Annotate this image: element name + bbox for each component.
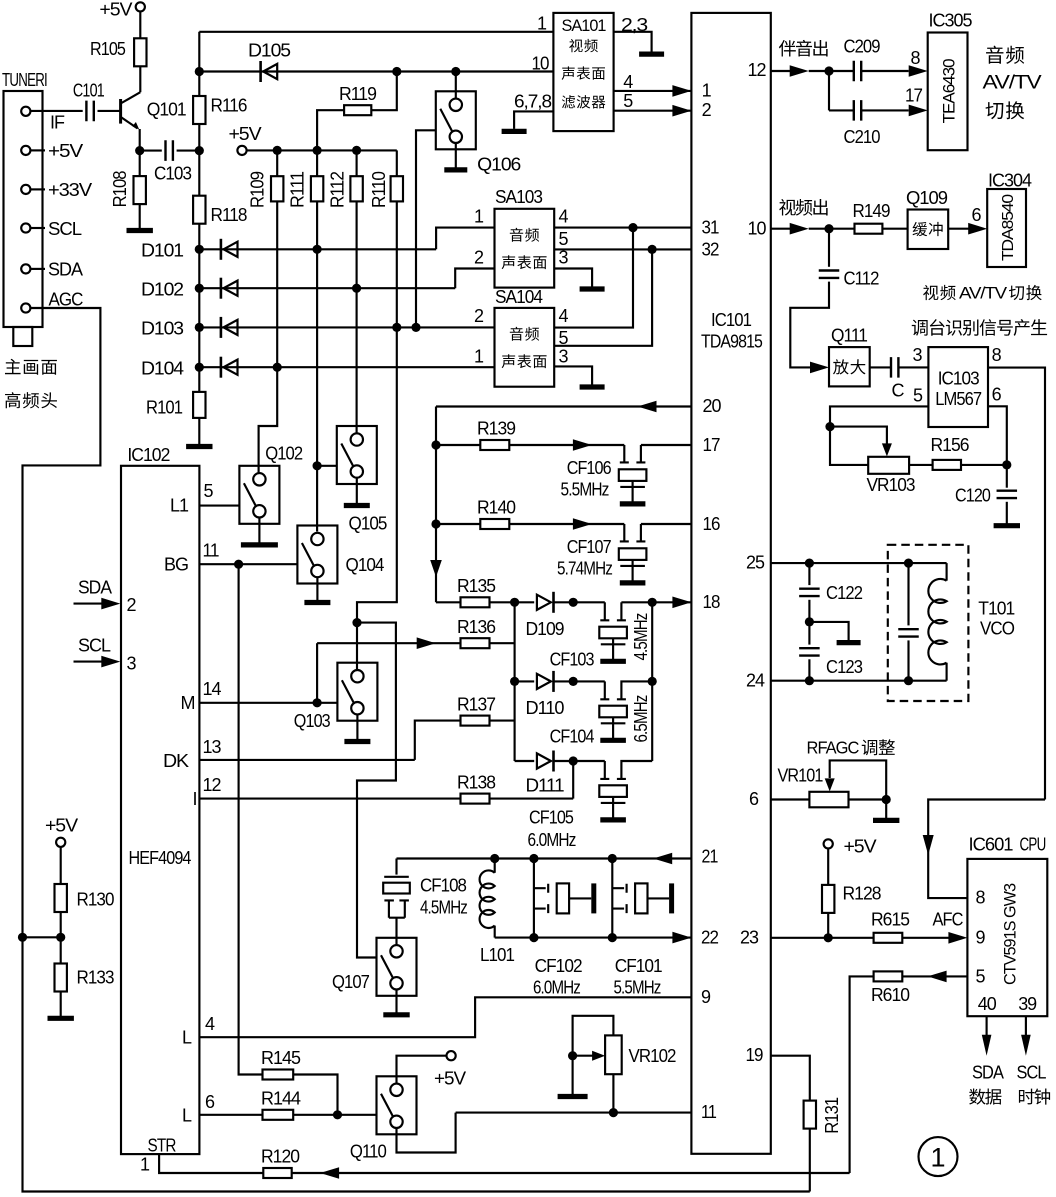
wire C209 to IC305: [861, 70, 909, 72]
svg-text:R136: R136: [457, 617, 496, 637]
wire VR102 top: [573, 1016, 614, 1056]
svg-text:4: 4: [205, 1014, 215, 1034]
node D109 input: [510, 598, 519, 607]
wire Q106 control: [416, 130, 436, 327]
node R112 top: [352, 146, 361, 155]
svg-text:R110: R110: [369, 171, 389, 208]
svg-text:AFC: AFC: [933, 909, 964, 929]
wire IC101 pin11: [456, 1112, 692, 1114]
svg-text:24: 24: [746, 671, 765, 691]
svg-text:2: 2: [474, 248, 484, 268]
svg-text:11: 11: [203, 541, 220, 561]
wire SA104 pin3 to ground: [554, 366, 592, 384]
wire R136 to column: [490, 642, 515, 644]
svg-text:1: 1: [140, 1155, 150, 1175]
capacitor C210: [854, 100, 861, 121]
transistor Q106: [436, 91, 476, 149]
svg-text:SA101: SA101: [562, 16, 607, 35]
wire to R139: [436, 444, 480, 446]
wire R119 right lead: [371, 72, 397, 111]
arrow into IC101 pin 18: [672, 597, 691, 609]
svg-text:SA103: SA103: [495, 187, 543, 207]
arrow pin10: [790, 223, 809, 235]
svg-text:9: 9: [976, 928, 986, 948]
svg-text:SDA: SDA: [78, 577, 112, 597]
svg-text:2: 2: [127, 595, 137, 615]
wire C123 to pin24: [808, 659, 810, 680]
wire SA101 pins 2,3: [614, 32, 652, 52]
node emitter junction: [135, 146, 144, 155]
ceramic filter CF106: [624, 445, 641, 462]
wire +5V rail: [247, 149, 397, 151]
wire divider tap: [23, 936, 61, 938]
SAW filter SA104: [495, 308, 555, 387]
node C123 bottom: [805, 676, 814, 685]
svg-text:1: 1: [537, 14, 547, 34]
wire R140 to CF107: [509, 523, 624, 525]
node AGC / R130 divider: [18, 933, 27, 942]
svg-text:5.5MHz: 5.5MHz: [614, 978, 662, 998]
svg-text:5.5MHz: 5.5MHz: [561, 480, 610, 500]
label 调台识别信号产生: [912, 319, 1047, 336]
wire Q111 to cap C: [870, 366, 891, 368]
resistor R138: [461, 794, 490, 804]
svg-text:R105: R105: [90, 39, 126, 59]
label 视频: [569, 39, 598, 52]
wire D101 row: [199, 248, 436, 250]
label 视频出: [779, 199, 827, 216]
capacitor C209: [854, 61, 861, 82]
node C112: [824, 224, 833, 233]
wire R615 to IC601 pin9: [902, 937, 949, 939]
wire DK riser to R137: [415, 721, 461, 760]
node R109 top: [273, 146, 282, 155]
svg-text:R120: R120: [261, 1146, 300, 1166]
diode D101: [220, 239, 223, 260]
wire SCL arrow (pin39): [1025, 1016, 1027, 1035]
wire R105 to Q101 collector: [139, 66, 141, 92]
svg-text:40: 40: [978, 994, 997, 1014]
label 音频 (SA104): [510, 327, 539, 341]
arrow SDA: [982, 1035, 992, 1056]
wire Q105 control: [317, 465, 337, 467]
node pin18 branch: [648, 598, 657, 607]
svg-text:6.0MHz: 6.0MHz: [533, 978, 581, 998]
ceramic filter CF102: [534, 888, 546, 908]
wire to R140: [436, 523, 480, 525]
svg-text:CF105: CF105: [529, 808, 574, 828]
svg-text:12: 12: [748, 60, 767, 80]
label 伴音出: [779, 40, 828, 57]
capacitor C: [891, 357, 898, 378]
wire R110 top lead: [396, 150, 398, 176]
resistor R136: [461, 638, 490, 648]
wire R130 to node: [60, 912, 62, 937]
node D103: [195, 323, 204, 332]
wire CF104 right lead: [621, 681, 652, 698]
svg-text:4: 4: [559, 306, 569, 326]
svg-text:Q104: Q104: [346, 555, 385, 575]
label 切换 (mid): [1009, 285, 1042, 300]
svg-text:R118: R118: [211, 205, 248, 225]
node R111/D101: [313, 245, 322, 254]
svg-text:IC101: IC101: [711, 310, 752, 330]
wire tuner SDA stub: [30, 268, 45, 270]
svg-text:Q102: Q102: [265, 443, 303, 463]
wire cap C to IC103: [899, 366, 929, 368]
arrow down to R135: [430, 560, 442, 577]
diode D103: [220, 317, 223, 338]
transistor Q104: [297, 526, 337, 584]
svg-text:R149: R149: [853, 201, 891, 221]
wire SA101 pin4 to IC101 pin1: [614, 90, 692, 92]
wire R112 top lead: [356, 150, 358, 176]
wire node to ground: [809, 622, 848, 640]
wire SA104 pin4: [554, 228, 633, 328]
transistor Q103: [337, 663, 377, 721]
ceramic filter CF101: [612, 888, 624, 908]
tuner pin p5: [21, 146, 30, 155]
resistor R111: [311, 176, 323, 201]
svg-text:R108: R108: [110, 170, 130, 207]
ground SA103 pin3: [580, 286, 605, 291]
wire SA101 pin5 to IC101 pin2: [614, 110, 692, 112]
label 声表面 (SA104): [502, 354, 547, 368]
capacitor C101: [86, 101, 93, 122]
svg-text:CF107: CF107: [567, 537, 612, 557]
node VR101 right: [882, 795, 891, 804]
node CF101 bottom: [608, 933, 617, 942]
potentiometer VR102: [605, 1035, 622, 1074]
node C209/C210: [824, 66, 833, 75]
power +5V (R128): [824, 839, 833, 848]
transistor Q105: [337, 426, 377, 484]
label 视频 AV/TV 切换: [923, 285, 956, 300]
wire STR pin1: [159, 1154, 263, 1173]
wire R111 column lower: [316, 249, 318, 531]
wire VR103 left: [830, 427, 868, 465]
ground VR102 wiper: [572, 1056, 574, 1097]
svg-text:SA104: SA104: [495, 287, 543, 307]
svg-text:C123: C123: [826, 657, 863, 677]
node T101 cap top: [904, 559, 913, 568]
wire VR102 bottom: [612, 1074, 614, 1112]
svg-text:4: 4: [559, 207, 569, 227]
node R112/D102: [352, 284, 361, 293]
wire tuner SCL stub: [30, 227, 45, 229]
label 放大: [833, 359, 865, 374]
node D102: [195, 284, 204, 293]
wire R610 to bottom row: [850, 976, 874, 1173]
wire SA101 pin1 row: [199, 31, 553, 33]
resistor R131: [804, 1101, 816, 1129]
wire R136 feed: [317, 642, 460, 644]
power +5V (Q110): [447, 1051, 456, 1060]
svg-text:6,7,8: 6,7,8: [514, 92, 552, 112]
wire D111 in: [515, 760, 535, 762]
wire CF101 left column: [611, 859, 613, 938]
wire VR103 to R156: [909, 464, 933, 466]
resistor R156: [933, 460, 961, 470]
svg-text:2: 2: [474, 306, 484, 326]
wire pin23 to R615: [771, 937, 874, 939]
svg-text:R130: R130: [77, 890, 115, 910]
wire R109 top lead: [276, 150, 278, 176]
wire to C209: [809, 70, 854, 72]
wire R139 to CF106: [509, 444, 624, 446]
wire CF107 to IC101 pin16: [641, 523, 692, 525]
ground Q102: [258, 517, 260, 545]
node L101 top: [490, 854, 499, 863]
node SA103 pin5 / SA104 pin5: [648, 245, 657, 254]
svg-text:6: 6: [992, 385, 1002, 405]
resistor R118: [193, 196, 205, 224]
wire VR101 to node: [849, 798, 887, 800]
wire R110 column: [396, 201, 398, 327]
wire IC101 pin25: [771, 562, 947, 564]
diode D105: [259, 61, 262, 82]
wire D102 row: [199, 287, 455, 289]
potentiometer VR103: [868, 457, 909, 474]
svg-text:6: 6: [972, 205, 982, 225]
node R128/pin23: [824, 933, 833, 942]
svg-text:CF102: CF102: [535, 956, 583, 976]
wire Q106 top lead: [455, 72, 457, 99]
svg-text:R139: R139: [477, 419, 516, 439]
wire D109 to CF103: [554, 601, 605, 603]
svg-text:C209: C209: [844, 37, 881, 57]
node R110/D103: [392, 323, 401, 332]
svg-text:R112: R112: [327, 171, 347, 208]
svg-text:R156: R156: [931, 435, 970, 455]
wire R112 column lower: [356, 288, 358, 433]
wire D110 in: [515, 680, 535, 682]
svg-text:12: 12: [203, 775, 222, 795]
inductor L101: [494, 859, 496, 873]
wire CF right column: [651, 602, 653, 761]
node R140 tap: [431, 519, 440, 528]
wire BG pin11 to Q104: [199, 563, 297, 565]
resistor R112: [350, 176, 362, 201]
node Q103 top: [352, 618, 361, 627]
IC IC101 TDA9815: [691, 13, 770, 1154]
svg-text:STR: STR: [148, 1136, 177, 1156]
wire D110 out: [554, 680, 605, 682]
svg-text:17: 17: [905, 86, 923, 106]
wire Q103 node to Q107 control: [357, 623, 396, 958]
arrow out of pin5: [928, 971, 947, 983]
svg-text:C120: C120: [955, 486, 991, 506]
node R156/C120: [1002, 460, 1011, 469]
tuner pin AGC: [21, 303, 30, 312]
arrow SDA into pin2: [101, 598, 120, 610]
svg-text:3: 3: [559, 347, 569, 367]
svg-text:VR103: VR103: [867, 475, 916, 495]
svg-text:IC601: IC601: [969, 835, 1014, 855]
capacitor T101 internal: [898, 629, 919, 636]
wire tuner +33V stub: [30, 188, 45, 190]
IC IC103 LM567: [928, 347, 988, 427]
wire IC101 pin6: [771, 798, 810, 800]
wire SDA arrow: [74, 603, 105, 605]
svg-text:R109: R109: [248, 171, 268, 208]
svg-text:6.5MHz: 6.5MHz: [631, 695, 651, 743]
node Q106 top: [451, 67, 460, 76]
svg-text:+5V: +5V: [48, 141, 83, 161]
node VR103 top: [825, 422, 834, 431]
svg-text:4.5MHz: 4.5MHz: [631, 613, 651, 661]
wire Q102 top lead: [259, 367, 278, 472]
svg-text:13: 13: [203, 737, 222, 757]
svg-text:6.0MHz: 6.0MHz: [528, 830, 577, 850]
transformer T101 dashed box: [888, 545, 969, 701]
arrow toward CF107: [573, 518, 592, 530]
svg-text:R138: R138: [457, 772, 496, 792]
resistor R610: [874, 971, 903, 981]
svg-text:6: 6: [749, 789, 759, 809]
label 滤波器: [562, 95, 606, 108]
ground R133: [60, 991, 62, 1018]
resistor R135: [461, 597, 490, 607]
tuner pin SCL: [21, 223, 30, 232]
svg-text:C101: C101: [73, 81, 105, 101]
label 高频头: [5, 392, 57, 408]
wire R116 to C103 node: [198, 124, 200, 151]
node D110 input: [510, 677, 519, 686]
wire R111 top lead: [316, 150, 318, 176]
ceramic filter CF108: [395, 859, 397, 875]
label 音频 (IC305): [986, 46, 1024, 64]
wire node to R133: [60, 937, 62, 963]
svg-text:SCL: SCL: [1017, 1063, 1047, 1083]
svg-text:CF103: CF103: [550, 650, 595, 670]
svg-text:Q103: Q103: [294, 711, 331, 731]
arrow toward R120: [320, 1167, 339, 1179]
wire C103 node to R118: [198, 151, 200, 196]
wire Q110 bottom: [397, 1113, 456, 1153]
ground Q107: [395, 989, 397, 1015]
svg-text:L1: L1: [170, 496, 189, 516]
wire R138 out: [490, 798, 574, 800]
resistor R108: [134, 176, 146, 204]
wire VR103 wiper feed: [830, 427, 887, 444]
power +5V (rail): [237, 146, 246, 155]
tuner pin p33: [21, 185, 30, 194]
inductor T101: [946, 563, 948, 581]
wire CF103 to pin18 row: [621, 601, 691, 603]
wire CF105 right lead: [621, 761, 652, 778]
ceramic filter CF104: [600, 698, 626, 700]
wire D105 row (SA101 pin10): [199, 70, 553, 72]
resistor R110: [391, 176, 403, 201]
svg-text:TEA6430: TEA6430: [939, 59, 958, 124]
svg-text:9: 9: [701, 987, 711, 1007]
wire Q103 top lead: [356, 623, 358, 670]
svg-text:10: 10: [748, 219, 767, 239]
svg-text:HEF4094: HEF4094: [129, 848, 192, 868]
wire IC101 pin20: [436, 405, 691, 407]
power +5V (R105): [136, 2, 145, 11]
wire +5V to R128: [827, 849, 829, 885]
node R119 riser: [392, 67, 401, 76]
svg-text:SDA: SDA: [972, 1063, 1004, 1083]
svg-text:2: 2: [702, 100, 712, 120]
wire R119 left lead: [317, 110, 344, 150]
node C103/R116/R118: [195, 146, 204, 155]
arrow into IC304 pin6: [968, 223, 987, 235]
wire SDA arrow (pin40): [986, 1016, 988, 1035]
wire L1 pin5 to Q102: [199, 505, 239, 507]
wire T101 cap bottom lead: [907, 640, 909, 680]
resistor R119: [344, 105, 371, 115]
svg-text:DK: DK: [163, 751, 189, 771]
tuner box: [4, 91, 43, 327]
node SA103 pin4 / SA104 pin4: [628, 223, 637, 232]
svg-text:C122: C122: [826, 583, 863, 603]
resistor R149: [855, 224, 883, 234]
wire pin20 column: [435, 407, 437, 603]
label 主画面: [5, 359, 57, 375]
arrow into Q111: [810, 362, 829, 374]
node R130/R133: [56, 933, 65, 942]
svg-text:M: M: [181, 693, 195, 713]
svg-text:+5V: +5V: [844, 837, 877, 857]
wire DK pin13: [199, 759, 414, 761]
svg-text:16: 16: [703, 514, 721, 534]
node M branch: [313, 698, 322, 707]
ground VR101: [885, 800, 887, 821]
svg-text:IC304: IC304: [988, 171, 1032, 191]
wire VR102 wiper: [573, 1055, 593, 1057]
svg-text:TDA8540: TDA8540: [1000, 194, 1017, 261]
wire T101 cap top lead: [907, 563, 909, 625]
svg-text:19: 19: [746, 1045, 764, 1065]
svg-text:20: 20: [703, 396, 722, 416]
wire R128 to pin23: [827, 913, 829, 938]
node D110 output: [569, 677, 578, 686]
svg-text:C: C: [892, 381, 905, 401]
svg-text:5: 5: [204, 481, 214, 501]
svg-text:Q105: Q105: [349, 514, 388, 534]
svg-text:L: L: [182, 1106, 192, 1126]
node CF102 top: [529, 854, 538, 863]
wire R120 row: [292, 1172, 850, 1174]
capacitor C123: [799, 648, 820, 655]
svg-text:R135: R135: [457, 576, 496, 596]
arrow AFC into pin9: [948, 932, 967, 944]
svg-text:R111: R111: [288, 171, 308, 208]
svg-text:D110: D110: [526, 698, 565, 718]
svg-text:4: 4: [623, 72, 633, 92]
svg-text:C210: C210: [844, 127, 881, 147]
arrow into IC101 pin 2: [672, 105, 691, 117]
wire R156 to node: [961, 464, 1007, 466]
wire pin4 L to IC101 pin9: [199, 997, 691, 1037]
wire BG branch to R145: [239, 564, 263, 1074]
svg-text:R145: R145: [261, 1048, 301, 1068]
svg-text:32: 32: [702, 239, 720, 259]
capacitor C103: [166, 140, 173, 161]
label 调整: [862, 739, 895, 755]
svg-text:14: 14: [203, 679, 222, 699]
wire R112 column: [356, 201, 358, 288]
wire AGC: [23, 308, 810, 1192]
svg-text:Q110: Q110: [350, 1142, 387, 1162]
resistor R145: [263, 1070, 294, 1080]
wire R149 to Q109: [882, 228, 907, 230]
svg-text:5: 5: [623, 91, 633, 111]
wire IC103 pin6: [988, 406, 1007, 465]
